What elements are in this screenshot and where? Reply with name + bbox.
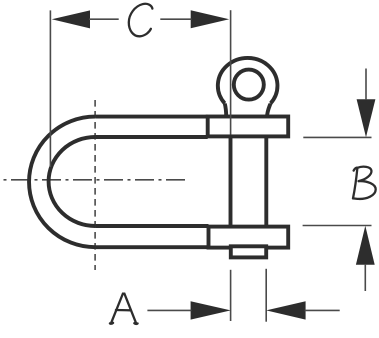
pin head ring inner circle [234, 70, 264, 100]
top leg outer line [95, 115, 207, 119]
bottom leg inner line [95, 224, 208, 228]
shackle bow inner arc [49, 137, 96, 226]
dimension C right arrow [191, 10, 230, 28]
horizontal centerline (dash-dot) through bow center [4, 179, 187, 181]
bottom lug (right ear) [209, 227, 289, 248]
pin head neck left [225, 103, 227, 116]
pin head ring outer arc [218, 58, 278, 103]
dimension B bottom arrow [356, 226, 375, 265]
pin head neck right [267, 103, 271, 116]
dimension B bottom extension line [303, 225, 372, 227]
top lug (right ear) [208, 117, 289, 137]
dimension A left tail line [147, 309, 191, 311]
dimension A left-pointing arrow [266, 301, 305, 319]
dimension C right tail line [160, 18, 191, 20]
top leg inner line [95, 135, 207, 139]
dimension A right-pointing arrow [191, 301, 231, 319]
dimension C left extension line [49, 10, 51, 167]
label B [353, 167, 376, 199]
label C [129, 4, 153, 37]
pin shaft left edge [229, 136, 233, 226]
dimension A right tail line [305, 309, 340, 311]
dimension A left extension line [230, 270, 232, 321]
bottom leg outer line [95, 245, 208, 249]
dimension B top tail line [365, 69, 367, 101]
dimension B bottom tail line [364, 264, 366, 291]
dimension B top extension line [303, 136, 371, 138]
shackle bow outer arc [29, 117, 95, 248]
vertical centerline (dashed) at bow tangent [94, 100, 96, 270]
pin shaft right edge [264, 136, 268, 226]
dimension C left tail line [89, 18, 119, 20]
dimension C left arrow [52, 10, 90, 28]
dimension C right extension line [230, 10, 232, 134]
dimension B top arrow [357, 99, 376, 137]
dimension A right extension line [265, 269, 267, 322]
label A [110, 294, 138, 324]
pin nut below bottom lug [231, 246, 266, 257]
